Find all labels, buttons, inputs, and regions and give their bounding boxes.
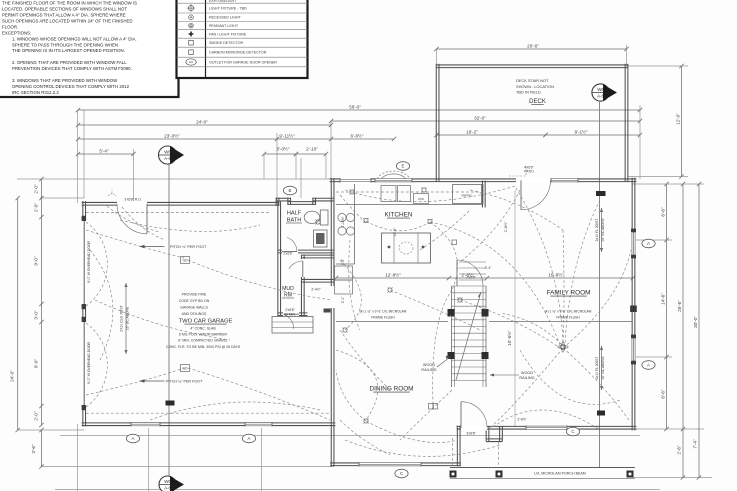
svg-text:12'-8½": 12'-8½"	[385, 271, 401, 277]
svg-text:EXCEPTIONS:: EXCEPTIONS:	[2, 30, 31, 35]
svg-text:2'-4": 2'-4"	[485, 266, 492, 270]
svg-text:20 MIN.: 20 MIN.	[284, 313, 296, 317]
svg-text:LVL MICROLAM PORCH BEAM: LVL MICROLAM PORCH BEAM	[534, 472, 586, 476]
svg-text:16" OC ABOVE: 16" OC ABOVE	[126, 306, 130, 330]
svg-text:(4) 1 ¾" x 9 ½" LVL MICROLAM: (4) 1 ¾" x 9 ½" LVL MICROLAM	[545, 310, 592, 314]
svg-text:24'-0": 24'-0"	[10, 370, 15, 382]
svg-text:GD: GD	[182, 367, 188, 371]
svg-text:6'-6½": 6'-6½"	[351, 133, 364, 139]
svg-text:9'-0": 9'-0"	[34, 359, 39, 369]
svg-text:10'-5½": 10'-5½"	[506, 330, 512, 346]
svg-text:12'-6": 12'-6"	[393, 227, 397, 236]
svg-text:MUD: MUD	[282, 286, 294, 292]
svg-text:GARAGE WALLS: GARAGE WALLS	[180, 306, 208, 310]
svg-text:9'-0": 9'-0"	[34, 256, 39, 266]
svg-text:9'-1½": 9'-1½"	[575, 129, 588, 135]
svg-text:PATIO: PATIO	[524, 170, 534, 174]
svg-text:FRAME FLUSH: FRAME FLUSH	[556, 316, 580, 320]
svg-text:LIGHT FIXTURE - TBD: LIGHT FIXTURE - TBD	[209, 7, 247, 11]
svg-text:14'-6": 14'-6"	[661, 293, 666, 305]
svg-text:16" OC ABOVE: 16" OC ABOVE	[601, 356, 605, 380]
svg-text:CARBON MONOXIDE DETECTOR: CARBON MONOXIDE DETECTOR	[209, 51, 267, 55]
svg-text:A: A	[647, 241, 650, 246]
svg-text:2'-6½": 2'-6½"	[517, 418, 527, 422]
svg-text:DECK STAIR NOT: DECK STAIR NOT	[516, 78, 549, 83]
svg-text:FLOOR.: FLOOR.	[2, 24, 18, 29]
svg-text:HALF: HALF	[287, 211, 302, 217]
svg-text:2. OPENING THAT ARE PROVIDED W: 2. OPENING THAT ARE PROVIDED WITH WINDOW…	[12, 60, 127, 65]
svg-text:A: A	[647, 363, 650, 368]
svg-text:9'-0" W OVERHEAD DOOR: 9'-0" W OVERHEAD DOOR	[87, 341, 91, 384]
svg-text:C: C	[571, 429, 574, 434]
svg-text:THE FINISHED FLOOR OF THE ROOM: THE FINISHED FLOOR OF THE ROOM IN WHICH …	[2, 1, 137, 6]
svg-text:2x10 FL JOIST: 2x10 FL JOIST	[595, 357, 599, 380]
svg-text:30'-0": 30'-0"	[693, 316, 698, 328]
svg-text:3'-6": 3'-6"	[31, 444, 36, 454]
svg-text:7'-4": 7'-4"	[693, 439, 698, 449]
svg-text:6 MIL POLY VAPOR BARRIER: 6 MIL POLY VAPOR BARRIER	[179, 333, 228, 337]
svg-text:DINING ROOM: DINING ROOM	[369, 386, 413, 393]
svg-text:RM: RM	[284, 293, 292, 299]
svg-text:(4) 1 ¾" x 9 ½" LVL MICROLAM: (4) 1 ¾" x 9 ½" LVL MICROLAM	[360, 310, 407, 314]
svg-text:2'-8½": 2'-8½"	[504, 221, 508, 232]
svg-text:TBD IN FIELD: TBD IN FIELD	[516, 90, 541, 95]
svg-text:SMOKE DETECTOR: SMOKE DETECTOR	[209, 41, 243, 45]
svg-text:CODE GYP BD ON: CODE GYP BD ON	[179, 299, 210, 303]
svg-text:2'-10": 2'-10"	[306, 147, 318, 152]
svg-text:20'-6": 20'-6"	[527, 44, 539, 49]
svg-text:PROVIDE FIRE: PROVIDE FIRE	[182, 293, 207, 297]
svg-text:9'-11½": 9'-11½"	[279, 133, 295, 139]
svg-text:6'-6": 6'-6"	[661, 207, 666, 217]
svg-text:BATH: BATH	[287, 218, 302, 224]
svg-text:PREVENTION DEVICES THAT COMPLY: PREVENTION DEVICES THAT COMPLY WITH ASTM…	[12, 66, 132, 71]
svg-text:2'-6": 2'-6"	[677, 445, 682, 455]
svg-text:A: A	[132, 436, 135, 441]
svg-text:IRC SECTION R312.2.2: IRC SECTION R312.2.2	[12, 90, 59, 95]
svg-text:WOOD: WOOD	[423, 363, 435, 367]
svg-text:RECESSED LIGHT: RECESSED LIGHT	[209, 16, 242, 20]
svg-text:2x10 FL JOIST: 2x10 FL JOIST	[595, 219, 599, 242]
svg-text:C: C	[400, 471, 403, 476]
svg-text:23'-0½": 23'-0½"	[164, 133, 180, 139]
svg-text:2'-10½": 2'-10½"	[341, 216, 345, 228]
svg-text:PERMIT OPENINGS THAT ALLOW A 4: PERMIT OPENINGS THAT ALLOW A 4" DIA. SPH…	[2, 13, 126, 18]
svg-text:2'-1": 2'-1"	[341, 296, 345, 303]
svg-text:24'-0": 24'-0"	[196, 120, 208, 125]
svg-text:16" OC ABOVE: 16" OC ABOVE	[601, 218, 605, 242]
svg-text:PENDANT LIGHT: PENDANT LIGHT	[209, 24, 239, 28]
svg-text:2'-0": 2'-0"	[34, 184, 39, 194]
svg-text:FRAME FLUSH: FRAME FLUSH	[371, 316, 395, 320]
svg-text:3'-0½": 3'-0½"	[277, 146, 290, 152]
svg-text:SHOWN - LOCATION: SHOWN - LOCATION	[516, 84, 554, 89]
svg-text:2'-0": 2'-0"	[34, 203, 39, 213]
svg-text:32'-0": 32'-0"	[474, 116, 486, 121]
svg-text:OPENING CONTROL DEVICES THAT C: OPENING CONTROL DEVICES THAT COMPLY WITH…	[12, 84, 130, 89]
svg-text:3'x6'8" R.O.: 3'x6'8" R.O.	[124, 198, 141, 202]
svg-text:PITCH ¼" PER FOOT: PITCH ¼" PER FOOT	[166, 380, 203, 384]
svg-text:EXH FAN/LIGHT: EXH FAN/LIGHT	[209, 0, 237, 3]
svg-text:REFRIG: REFRIG	[462, 194, 474, 198]
svg-text:2'x6'8": 2'x6'8"	[283, 252, 293, 256]
svg-text:3'-0": 3'-0"	[341, 258, 345, 265]
svg-text:FAN / LIGHT FIXTURE: FAN / LIGHT FIXTURE	[209, 32, 247, 36]
svg-text:RAILING: RAILING	[421, 368, 436, 372]
svg-text:3'-0": 3'-0"	[34, 310, 39, 320]
svg-text:56'-0": 56'-0"	[349, 105, 361, 110]
svg-text:SUCH OPENINGS ARE LOCATED WITH: SUCH OPENINGS ARE LOCATED WITHIN 24" OF …	[2, 18, 133, 23]
svg-text:AND CEILINGS: AND CEILINGS	[182, 312, 207, 316]
svg-text:B: B	[289, 188, 292, 193]
svg-text:PITCH ¼" PER FOOT: PITCH ¼" PER FOOT	[170, 245, 207, 249]
svg-text:E: E	[402, 164, 405, 169]
svg-text:3. WINDOWS THAT ARE PROVIDED W: 3. WINDOWS THAT ARE PROVIDED WITH WINDOW	[12, 78, 118, 83]
svg-text:12'-0": 12'-0"	[676, 113, 681, 125]
svg-text:2'-0": 2'-0"	[34, 411, 39, 421]
svg-text:CONC. FLR. TO BE MIN. 3000 PSI: CONC. FLR. TO BE MIN. 3000 PSI @ 28 DAYS	[166, 345, 241, 349]
svg-text:5'-4": 5'-4"	[99, 149, 109, 154]
svg-text:WOOD: WOOD	[521, 371, 533, 375]
svg-text:RAILING: RAILING	[519, 376, 534, 380]
svg-text:THE OPENING IS IN ITS LARGEST: THE OPENING IS IN ITS LARGEST OPENED POS…	[12, 48, 125, 53]
svg-text:SPHERE TO PASS THROUGH THE OPE: SPHERE TO PASS THROUGH THE OPENING WHEN	[12, 42, 118, 47]
svg-text:16'-2": 16'-2"	[466, 130, 478, 135]
svg-text:6" MIN. COMPACTED GRAVEL: 6" MIN. COMPACTED GRAVEL	[178, 339, 228, 343]
svg-text:4" CONC. SLAB: 4" CONC. SLAB	[190, 327, 216, 331]
svg-text:2'x6'8": 2'x6'8"	[466, 276, 476, 280]
svg-text:2X10 CLG JOIST: 2X10 CLG JOIST	[119, 305, 123, 331]
svg-text:FAMILY ROOM: FAMILY ROOM	[547, 290, 591, 297]
svg-text:GD: GD	[182, 259, 188, 263]
svg-text:6'-6": 6'-6"	[661, 389, 666, 399]
svg-text:3'x6'8": 3'x6'8"	[466, 432, 476, 436]
svg-text:KITCHEN: KITCHEN	[384, 212, 412, 219]
svg-text:TWO CAR GARAGE: TWO CAR GARAGE	[179, 319, 233, 325]
svg-text:15'-8½": 15'-8½"	[548, 271, 564, 277]
svg-text:OUTLET FOR GARAGE DOOR OPENER: OUTLET FOR GARAGE DOOR OPENER	[209, 60, 277, 64]
svg-text:9'-0" W OVERHEAD DOOR: 9'-0" W OVERHEAD DOOR	[87, 240, 91, 283]
svg-text:1. WINDOWS WHOSE OPENINGS WILL: 1. WINDOWS WHOSE OPENINGS WILL NOT ALLOW…	[12, 36, 137, 41]
svg-text:2'x6'8": 2'x6'8"	[285, 308, 295, 312]
svg-text:A: A	[248, 436, 251, 441]
svg-text:D/W: D/W	[418, 197, 424, 201]
svg-text:DECK: DECK	[529, 99, 546, 105]
svg-text:2'-4½": 2'-4½"	[311, 288, 321, 292]
svg-text:LOCATED. OPERABLE SECTIONS OF: LOCATED. OPERABLE SECTIONS OF WINDOWS SH…	[2, 7, 127, 12]
svg-text:25'-6": 25'-6"	[677, 300, 682, 312]
